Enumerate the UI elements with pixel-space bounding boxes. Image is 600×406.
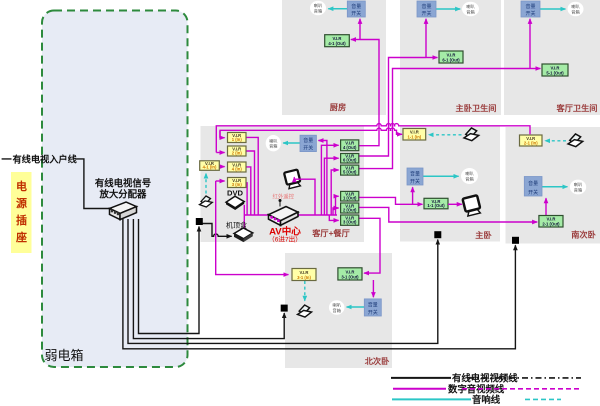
- wire: 4(Out) to kitchen 4-1(Out) and switch: [359, 40, 379, 146]
- laptop north: [298, 305, 312, 317]
- svg-text:音响线: 音响线: [472, 394, 501, 405]
- svg-text:3 (Out): 3 (Out): [343, 220, 357, 225]
- wire: north laptop link (dashed): [304, 281, 306, 301]
- svg-text:3-1 (In): 3-1 (In): [297, 275, 311, 280]
- wire: 2(In) output to AV bus: [246, 151, 255, 215]
- svg-text:客厅+餐厅: 客厅+餐厅: [311, 228, 350, 238]
- wire: DVD / set-top box to AV bus: [243, 205, 245, 229]
- svg-text:6-1 (Out): 6-1 (Out): [442, 57, 460, 62]
- legend: digital AV line: [393, 388, 446, 390]
- module 4-1(Out): [325, 35, 350, 47]
- volume switch master: [407, 168, 423, 185]
- device: CATV amplifier/splitter: [110, 202, 137, 220]
- svg-text:（6进7出）: （6进7出）: [268, 235, 302, 244]
- wire: AV to volume switch (living): [318, 141, 327, 216]
- wire: bus 1(In) to 1-1(In): [220, 128, 402, 138]
- svg-text:5 (Out): 5 (Out): [343, 170, 357, 175]
- svg-text:3-1 (Out): 3-1 (Out): [341, 274, 359, 279]
- svg-text:音量: 音量: [528, 180, 538, 187]
- svg-text:客厅卫生间: 客厅卫生间: [556, 103, 598, 113]
- module 1(In): [228, 133, 247, 143]
- wire: cable to north bedroom node: [133, 219, 284, 339]
- room panel: master bedroom: [400, 127, 500, 242]
- svg-text:音量: 音量: [525, 3, 535, 10]
- wire: AV to 5(Out): [331, 170, 338, 215]
- wire: kitchen switch to speaker: [328, 8, 347, 10]
- room panel: kitchen: [282, 0, 386, 115]
- module 3(In): [228, 178, 247, 188]
- wire: cable to south bedroom node: [123, 219, 516, 349]
- volume switch south: [524, 177, 542, 197]
- svg-text:座: 座: [15, 230, 27, 244]
- wire: 2(Out) to south 2-1(Out): [359, 207, 537, 222]
- svg-text:主卧: 主卧: [475, 230, 492, 240]
- wire: node to set-top box: [203, 224, 232, 237]
- module 6-1(Out): [439, 51, 463, 63]
- svg-text:音箱: 音箱: [314, 7, 322, 14]
- wire: 3(In) output to AV bus: [246, 183, 247, 215]
- svg-text:1 (In): 1 (In): [232, 137, 243, 142]
- svg-text:源: 源: [16, 196, 27, 210]
- module 3-1(In): [292, 269, 316, 281]
- svg-text:主卧卫生间: 主卧卫生间: [456, 103, 497, 113]
- module 3-1(Out): [338, 268, 362, 280]
- svg-text:开关: 开关: [410, 178, 420, 185]
- wire: AV to 2(Out): [333, 208, 339, 215]
- svg-text:5-1 (Out): 5-1 (Out): [546, 70, 564, 75]
- module 4-1(In): [200, 161, 220, 171]
- speaker north: [329, 300, 345, 314]
- wire: master laptop link (dashed): [429, 134, 462, 136]
- node: north bedroom CATV outlet: [281, 305, 288, 312]
- svg-text:机顶盒: 机顶盒: [226, 221, 247, 230]
- svg-text:有线电视入户线: 有线电视入户线: [13, 154, 78, 165]
- volume switch kitchen: [347, 1, 365, 17]
- wire: 4-1(In) to 4(In): [219, 166, 224, 168]
- speaker kitchen: [310, 1, 326, 15]
- wire: south 2-1(Out) to switch: [545, 198, 547, 215]
- wire: north 3-1(Out) to switch: [372, 280, 374, 297]
- wire: north switch to speaker: [347, 306, 365, 308]
- wire: AV to TV (living): [294, 177, 315, 215]
- wire: living laptop link (dashed): [205, 173, 207, 193]
- wire: south switch to speaker: [542, 186, 567, 188]
- power socket 电源插座: [11, 172, 32, 253]
- module 1-1(Out): [424, 198, 448, 209]
- speaker living bath: [568, 2, 584, 16]
- svg-text:音箱: 音箱: [465, 175, 473, 182]
- room panel: master bathroom: [400, 0, 501, 115]
- speaker south: [570, 180, 586, 195]
- svg-text:音箱: 音箱: [333, 307, 341, 314]
- svg-text:音箱: 音箱: [571, 8, 579, 15]
- wire: AV to 6(Out): [324, 158, 338, 215]
- svg-text:2-1 (Out): 2-1 (Out): [542, 221, 560, 226]
- wire: master 1-1(Out) to TV: [448, 203, 462, 205]
- svg-text:音箱: 音箱: [466, 8, 474, 15]
- module 2-1(Out): [539, 216, 563, 228]
- svg-text:弱电箱: 弱电箱: [45, 348, 84, 363]
- volume switch living bath: [521, 1, 540, 17]
- svg-text:2 (Out): 2 (Out): [343, 207, 357, 212]
- module 5-1(Out): [542, 64, 568, 76]
- wire: AV to 1(Out): [336, 196, 339, 215]
- svg-text:6 (Out): 6 (Out): [343, 157, 357, 162]
- module 2(Out): [341, 203, 359, 213]
- wire: 4(In) output to AV bus: [246, 167, 251, 215]
- svg-text:音量: 音量: [421, 3, 431, 10]
- volume switch living: [300, 135, 316, 151]
- volume switch north: [364, 299, 381, 316]
- weak current cabinet (dashed box): [42, 11, 188, 368]
- svg-text:放大分配器: 放大分配器: [99, 189, 148, 200]
- room panel: south bedroom: [506, 127, 600, 244]
- wire: 6(Out) to master-bath 6-1(Out) and switch: [359, 58, 426, 157]
- module 4(Out): [341, 140, 359, 151]
- svg-text:4 (In): 4 (In): [232, 166, 243, 171]
- svg-text:1 (Out): 1 (Out): [343, 195, 357, 200]
- wire: master switch to speaker: [423, 175, 459, 177]
- wire: 1(In) output to AV bus: [246, 137, 258, 215]
- svg-text:3 (In): 3 (In): [232, 182, 243, 187]
- svg-text:音量: 音量: [351, 3, 361, 10]
- svg-text:DVD: DVD: [227, 188, 244, 197]
- volume switch master bath: [417, 1, 436, 17]
- wire: living switch to speaker: [283, 142, 300, 144]
- wire: trunk 3(In) to 3-1(In): [216, 181, 289, 275]
- laptop living: [200, 196, 213, 207]
- svg-text:电: 电: [16, 179, 27, 193]
- svg-text:4-1 (In): 4-1 (In): [203, 165, 217, 170]
- wire: 5(Out) to living-bath 5-1(Out) and switch: [359, 69, 530, 169]
- module 2(In): [228, 146, 247, 156]
- laptop south: [568, 134, 583, 147]
- svg-text:开关: 开关: [351, 10, 361, 17]
- wire: AV to 4(Out): [321, 145, 338, 215]
- laptop master: [464, 128, 479, 141]
- wire: cable to living room node: [139, 219, 200, 334]
- node: living room CATV outlet: [196, 218, 203, 225]
- node: master bedroom CATV outlet: [434, 231, 441, 238]
- svg-text:4-1 (Out): 4-1 (Out): [328, 41, 346, 46]
- device: DVD player: [226, 196, 244, 210]
- module 3(Out): [341, 215, 359, 225]
- svg-text:开关: 开关: [368, 309, 378, 316]
- wire: 3(Out) to north 3-1(Out): [359, 218, 380, 273]
- svg-text:开关: 开关: [303, 144, 313, 151]
- svg-text:4 (Out): 4 (Out): [343, 145, 357, 150]
- svg-text:有线电视信号: 有线电视信号: [95, 177, 151, 188]
- TV living: [284, 169, 301, 188]
- device: AV center: [269, 199, 299, 225]
- speaker master: [461, 168, 478, 184]
- svg-text:1-1 (Out): 1-1 (Out): [427, 203, 445, 208]
- wire: CATV entry line: [2, 159, 109, 209]
- svg-text:北次卧: 北次卧: [365, 356, 390, 366]
- svg-text:红外遥控: 红外遥控: [273, 193, 295, 201]
- module 4(In): [228, 162, 247, 172]
- speaker living: [266, 135, 281, 151]
- module 2-1(In): [520, 135, 543, 146]
- module 5(Out): [341, 165, 359, 175]
- room panel: living bathroom: [504, 0, 600, 115]
- wire: living-bath switch to speaker: [540, 8, 565, 10]
- svg-text:音量: 音量: [410, 170, 420, 177]
- svg-text:开关: 开关: [421, 10, 431, 17]
- wire: bus 2(In) to 2-1(In): [216, 124, 530, 153]
- device: set-top box: [234, 228, 253, 242]
- node: south bedroom CATV outlet: [512, 237, 519, 244]
- svg-text:1-1 (In): 1-1 (In): [407, 134, 421, 139]
- svg-text:开关: 开关: [525, 10, 535, 17]
- svg-text:2 (In): 2 (In): [232, 150, 243, 155]
- legend: audio line: [392, 398, 471, 400]
- module 1-1(In): [403, 129, 426, 141]
- svg-text:2-1 (In): 2-1 (In): [524, 140, 538, 145]
- module 1(Out): [341, 191, 359, 201]
- svg-text:音箱: 音箱: [574, 186, 582, 193]
- room panel: north bedroom: [285, 253, 392, 368]
- wire: cable to master bedroom node: [128, 219, 438, 343]
- wire: AV center bus: [244, 214, 337, 216]
- svg-text:音箱: 音箱: [269, 143, 277, 150]
- svg-text:音量: 音量: [303, 137, 313, 144]
- legend: CATV video line: [391, 377, 451, 379]
- wire: AV to 3(Out): [329, 215, 338, 220]
- speaker master bath: [462, 2, 479, 16]
- wire: south laptop link (dashed): [545, 140, 566, 142]
- svg-text:厨房: 厨房: [330, 102, 346, 112]
- module 6(Out): [341, 154, 359, 164]
- svg-text:开关: 开关: [528, 189, 538, 196]
- room panel: living+dining: [201, 126, 365, 242]
- wire: master-bath switch to speaker: [436, 8, 460, 10]
- TV master: [463, 195, 482, 216]
- svg-text:南次卧: 南次卧: [571, 230, 596, 240]
- svg-text:音量: 音量: [368, 301, 378, 308]
- svg-text:插: 插: [16, 213, 27, 227]
- wire: 1(Out) to master 1-1(Out) and switch: [359, 197, 423, 204]
